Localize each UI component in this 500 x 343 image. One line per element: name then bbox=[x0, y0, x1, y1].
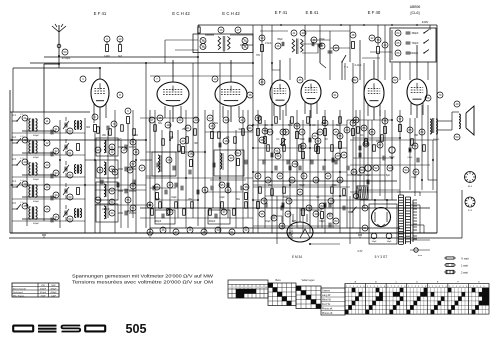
oscillator coil box row 2 bbox=[96, 138, 118, 156]
capacitor C71 bbox=[280, 206, 282, 211]
capacitor C58 bbox=[358, 153, 360, 158]
IF transformer T2 coils bbox=[292, 39, 295, 52]
node 54 bbox=[255, 115, 261, 121]
node 42 top bbox=[369, 35, 375, 41]
node 27 at (258,176) bbox=[255, 173, 261, 179]
resistor R16 bbox=[245, 193, 248, 200]
svg-text:Phono aK: Phono aK bbox=[322, 307, 333, 310]
resistor R66 bbox=[315, 145, 318, 152]
svg-text:3: 3 bbox=[456, 286, 457, 288]
resistor R71 bbox=[271, 189, 274, 196]
svg-text:460pF: 460pF bbox=[33, 179, 40, 181]
IF T1 trimmer right bbox=[242, 38, 248, 44]
node 30 bbox=[147, 202, 153, 208]
junction at (85,185) bbox=[84, 184, 86, 186]
resistor R74 bbox=[343, 189, 346, 196]
node 12 at (112,152) bbox=[109, 149, 115, 155]
trimmer capacitor row 2 bbox=[64, 145, 66, 150]
node 4 below V1 bbox=[92, 114, 98, 120]
svg-text:05μF: 05μF bbox=[277, 38, 283, 41]
resistor R51 bbox=[121, 125, 124, 132]
coil L16 bbox=[220, 153, 222, 169]
resistor R78 bbox=[175, 202, 178, 209]
padder capacitor row 3 bbox=[124, 167, 126, 172]
node label row 5 b bbox=[44, 206, 50, 212]
resistor R83 bbox=[233, 209, 236, 216]
wire bus y152 bbox=[146, 151, 205, 153]
node 86 at (372,132) bbox=[369, 129, 375, 135]
junction at (95,160) bbox=[94, 159, 96, 161]
node 29 at (280,176) bbox=[277, 173, 283, 179]
svg-text:2: 2 bbox=[370, 286, 371, 288]
junction at (310,148) bbox=[309, 147, 311, 149]
wire osc row 4 bbox=[118, 190, 123, 192]
mixer grid components bbox=[211, 132, 214, 139]
resistor R29 bbox=[302, 209, 305, 216]
capacitor C78 bbox=[210, 186, 212, 191]
legend 2 watt resistor bbox=[446, 270, 454, 273]
wire antenna to band switch bbox=[44, 63, 59, 65]
svg-text:2: 2 bbox=[350, 286, 351, 288]
resistor R54 bbox=[365, 139, 368, 146]
node 28 at (268,180) bbox=[265, 177, 271, 183]
svg-text:4: 4 bbox=[418, 286, 419, 288]
IF T2 top nodes bbox=[291, 30, 297, 36]
wire v x372 bbox=[371, 120, 373, 200]
resistor R32 bbox=[399, 125, 402, 132]
svg-text:6: 6 bbox=[425, 286, 426, 288]
ground det bbox=[286, 232, 294, 234]
node 52 bbox=[352, 77, 358, 83]
wire osc row 2 bbox=[118, 146, 123, 148]
pilot lamp P1 bbox=[353, 193, 358, 198]
node 15 at (100,170) bbox=[97, 167, 103, 173]
wire mixer links bbox=[204, 150, 206, 176]
tube V1 EF41 bbox=[91, 79, 109, 107]
node 87 at (380,145) bbox=[377, 142, 383, 148]
resistor R57 bbox=[411, 139, 414, 146]
node 42 at (242,120) bbox=[239, 117, 245, 123]
svg-text:E F 40: E F 40 bbox=[368, 10, 381, 15]
resistor R44 bbox=[186, 137, 189, 144]
resistor R48 bbox=[242, 129, 245, 136]
node 26 bbox=[166, 157, 172, 163]
junction at (422,180) bbox=[421, 179, 423, 181]
coil L6 bbox=[75, 165, 77, 174]
junction at (12,140) bbox=[11, 139, 13, 141]
svg-text:Vellen legen: Vellen legen bbox=[301, 279, 315, 282]
wire antenna feed bus bbox=[13, 67, 59, 69]
node 32 at (226,120) bbox=[223, 117, 229, 123]
svg-text:240V: 240V bbox=[422, 20, 429, 24]
node 26 at (344,155) bbox=[341, 152, 347, 158]
node 93 at (390,168) bbox=[387, 165, 393, 171]
capacitor C35 bbox=[323, 203, 325, 208]
svg-text:Gramm.: Gramm. bbox=[322, 289, 331, 292]
svg-text:1MΛ: 1MΛ bbox=[292, 221, 297, 223]
wire row 4 links bbox=[22, 196, 56, 198]
capacitor C32 bbox=[308, 138, 310, 143]
node 22 at (196,120) bbox=[193, 117, 199, 123]
junction at (59,64) bbox=[58, 63, 60, 65]
antenna coupling capacitor C1 4700pF bbox=[57, 44, 61, 48]
oscillator coil L11 bbox=[104, 184, 106, 197]
mixer box bbox=[214, 150, 244, 176]
svg-text:3: 3 bbox=[374, 286, 375, 288]
node 97 at (270,132) bbox=[267, 129, 273, 135]
junction at (340,196) bbox=[339, 195, 341, 197]
resistor R73 bbox=[331, 187, 334, 194]
node 44 top bbox=[382, 42, 388, 48]
resistor R59 bbox=[259, 117, 262, 124]
capacitor C18 bbox=[174, 183, 176, 188]
wire v x262 top bbox=[261, 25, 263, 85]
padder capacitor row 2 bbox=[124, 145, 126, 150]
junction at (360,190) bbox=[359, 189, 361, 191]
svg-text:Drehkond.: Drehkond. bbox=[13, 291, 23, 294]
resistor R60 bbox=[267, 145, 270, 152]
junction at (387,200) bbox=[386, 199, 388, 201]
resistor R63 bbox=[291, 117, 294, 124]
band switch contact A5 bbox=[17, 204, 21, 209]
svg-text:G: G bbox=[478, 282, 480, 284]
junction at (136,160) bbox=[135, 159, 137, 161]
svg-text:2: 2 bbox=[473, 286, 474, 288]
trimmer capacitor row 1 bbox=[64, 123, 66, 128]
electrolytic capacitor C38 bbox=[389, 147, 395, 153]
wire bus y192 bbox=[350, 191, 437, 193]
legend 1 watt resistor bbox=[446, 264, 454, 267]
svg-text:4700pF: 4700pF bbox=[102, 209, 110, 211]
node 32 at (316,180) bbox=[313, 177, 319, 183]
node 49 speaker bbox=[454, 101, 460, 107]
capacitor C60 bbox=[382, 156, 384, 161]
svg-text:4: 4 bbox=[377, 286, 378, 288]
junction at (325,160) bbox=[324, 159, 326, 161]
resistor R75 bbox=[151, 209, 154, 216]
svg-text:1kΛ: 1kΛ bbox=[118, 55, 123, 58]
svg-text:1: 1 bbox=[408, 286, 409, 288]
wire v x236 bbox=[235, 130, 237, 228]
svg-text:4: 4 bbox=[459, 286, 460, 288]
svg-text:6: 6 bbox=[404, 286, 405, 288]
svg-text:6: 6 bbox=[363, 286, 364, 288]
resistor R39 top bbox=[352, 42, 355, 49]
wire long mid horiz 1 bbox=[10, 139, 146, 141]
tube V2 ECH42 bbox=[157, 82, 189, 106]
wire v x385 top bbox=[384, 25, 386, 80]
svg-text:6.3V: 6.3V bbox=[358, 250, 363, 253]
junction at (272,125) bbox=[271, 124, 273, 126]
junction at (392,120) bbox=[391, 119, 393, 121]
svg-text:6.4mA: 6.4mA bbox=[355, 64, 362, 67]
wire top jogs bbox=[272, 63, 280, 70]
node 52 at (246,230) bbox=[243, 227, 249, 233]
node 47 at (142,168) bbox=[139, 165, 145, 171]
osc node row 4 bbox=[109, 188, 115, 194]
svg-text:2: 2 bbox=[432, 286, 433, 288]
svg-text:5: 5 bbox=[422, 286, 423, 288]
junction at (353,120) bbox=[352, 119, 354, 121]
wire v x248 bbox=[247, 110, 249, 218]
resistor R55 bbox=[373, 145, 376, 152]
node 40 at (330,216) bbox=[327, 213, 333, 219]
resistor R81 bbox=[209, 209, 212, 216]
smoothing capacitor C43 bbox=[371, 233, 377, 239]
wire AVC bus bbox=[30, 62, 253, 64]
node 23 at (210,118) bbox=[207, 115, 213, 121]
node 41 at (205,190) bbox=[202, 187, 208, 193]
wire left bank verticals bbox=[11, 112, 13, 233]
wire v x228 bbox=[227, 110, 229, 218]
svg-text:430pF: 430pF bbox=[155, 221, 162, 223]
resistor R49 bbox=[97, 127, 100, 134]
wire osc row 3 bbox=[118, 168, 123, 170]
wire v x415 bbox=[414, 118, 416, 196]
node 21 at (302,132) bbox=[299, 129, 305, 135]
tube socket pinout S1 bbox=[465, 172, 476, 183]
resistor R22 volume bbox=[282, 139, 285, 146]
svg-text:3: 3 bbox=[435, 286, 436, 288]
svg-text:5: 5 bbox=[483, 286, 484, 288]
oscillator coil box row 5 bbox=[96, 204, 118, 222]
junction at (253,63) bbox=[252, 62, 254, 64]
svg-text:2000pF: 2000pF bbox=[410, 52, 419, 55]
junction at (220,178) bbox=[219, 177, 221, 179]
wire v x410 top bbox=[409, 62, 411, 80]
coil L2 bbox=[75, 121, 77, 130]
svg-text:390pF: 390pF bbox=[411, 32, 419, 35]
osc node row 3 bbox=[109, 166, 115, 172]
resistor R67 bbox=[323, 117, 326, 124]
svg-text:2M: 2M bbox=[264, 125, 267, 127]
resistor R53 bbox=[357, 127, 360, 134]
junction at (150,205) bbox=[149, 204, 151, 206]
capacitor C42 2000pF bbox=[395, 50, 401, 56]
tube V6 EF40 bbox=[364, 79, 384, 107]
padder capacitor C23 bbox=[214, 214, 216, 219]
node 3 bbox=[80, 76, 86, 82]
antenna coil L5 bbox=[29, 163, 31, 176]
wire v x178 bbox=[177, 130, 179, 218]
band switch contact A3 bbox=[17, 160, 21, 165]
wire v x290 top bbox=[289, 58, 291, 80]
svg-text:460pF: 460pF bbox=[33, 135, 40, 137]
capacitor C73 bbox=[342, 206, 344, 211]
node 40 bbox=[259, 79, 265, 85]
resistor R37 top right bbox=[377, 47, 380, 54]
node 51 at (232,232) bbox=[229, 229, 235, 235]
wire v x193 bbox=[192, 63, 194, 218]
switch table label column bbox=[321, 288, 345, 315]
svg-text:Y 1: Y 1 bbox=[344, 65, 349, 69]
junction at (272,172) bbox=[271, 171, 273, 173]
capacitor C67 bbox=[322, 166, 324, 171]
resistor R64 bbox=[299, 145, 302, 152]
junction at (146,140) bbox=[145, 139, 147, 141]
wire det horizontals bbox=[253, 124, 347, 126]
wire v x133 bbox=[132, 110, 134, 218]
svg-text:5: 5 bbox=[463, 286, 464, 288]
padder capacitor row 4 bbox=[124, 189, 126, 194]
node 20 at (180,120) bbox=[177, 117, 183, 123]
svg-text:½ watt: ½ watt bbox=[461, 257, 469, 261]
resistor R1 cathode V1 bbox=[94, 125, 97, 132]
wire long mid horiz 2 bbox=[10, 184, 146, 186]
node 51 bbox=[332, 92, 338, 98]
svg-text:3: 3 bbox=[394, 286, 395, 288]
node 81 bbox=[362, 225, 368, 231]
resistor R30 grid leak bbox=[352, 129, 355, 136]
node 46 at (163,230) bbox=[160, 227, 166, 233]
resistor R25 bbox=[317, 147, 320, 154]
node 8 bbox=[117, 92, 123, 98]
oscillator coil L9 bbox=[104, 140, 106, 153]
junction at (253,125) bbox=[252, 124, 254, 126]
wire v x364 bbox=[363, 63, 365, 208]
node label row 5 a bbox=[22, 203, 28, 209]
capacitor C40 390pF bbox=[395, 30, 401, 36]
wire NFB bbox=[428, 179, 437, 181]
resistor R79 bbox=[183, 209, 186, 216]
resistor R13 bbox=[156, 193, 159, 200]
node 11 at (98,150) bbox=[95, 147, 101, 153]
svg-text:1: 1 bbox=[367, 286, 368, 288]
junction at (60,160) bbox=[59, 159, 61, 161]
node 39 at (316,214) bbox=[313, 211, 319, 217]
wire row y160 bbox=[85, 159, 95, 161]
wire chassis bus mid bbox=[140, 207, 430, 209]
junction at (272,63) bbox=[271, 62, 273, 64]
resistor R45 bbox=[194, 129, 197, 136]
wire V4 anode bbox=[279, 60, 281, 80]
svg-text:01μF: 01μF bbox=[219, 197, 225, 199]
node 35 at (262,214) bbox=[259, 211, 265, 217]
wire HT supply top bus bbox=[198, 24, 437, 26]
resistor R40 bbox=[154, 125, 157, 132]
electrolytic capacitor C37 50uF bbox=[365, 165, 371, 171]
svg-text:4: 4 bbox=[480, 286, 481, 288]
svg-text:E C H 42: E C H 42 bbox=[222, 11, 240, 16]
capacitor C63 bbox=[274, 166, 276, 171]
resistor R31 cathode CL6 bbox=[384, 127, 387, 134]
junction at (433,160) bbox=[432, 159, 434, 161]
svg-text:3: 3 bbox=[353, 286, 354, 288]
resistor R61 bbox=[275, 117, 278, 124]
resistor R84 bbox=[245, 202, 248, 209]
antenna coil L3 bbox=[29, 141, 31, 154]
capacitor C72 bbox=[328, 203, 330, 208]
node 17 at (152,120) bbox=[149, 117, 155, 123]
svg-text:16μF: 16μF bbox=[386, 241, 392, 243]
ground mid bbox=[146, 232, 154, 234]
capacitor C53 bbox=[212, 163, 214, 168]
oscillator coil L15 bbox=[158, 155, 160, 172]
junction at (375,200) bbox=[374, 199, 376, 201]
svg-text:1: 1 bbox=[387, 286, 388, 288]
node 31 at (304,176) bbox=[301, 173, 307, 179]
svg-text:01μF: 01μF bbox=[411, 177, 417, 179]
IF T1 trimmer left bbox=[200, 38, 206, 44]
junction at (253,148) bbox=[252, 147, 254, 149]
resistor R72 bbox=[283, 187, 286, 194]
oscillator section box bbox=[152, 152, 176, 176]
svg-text:460pF: 460pF bbox=[33, 201, 40, 203]
junction at (410,150) bbox=[409, 149, 411, 151]
svg-text:14pF: 14pF bbox=[51, 295, 57, 297]
wire v x400 top bbox=[399, 62, 401, 80]
capacitor C75 bbox=[164, 190, 166, 195]
wire v x108 bbox=[107, 140, 109, 218]
junction at (100,68) bbox=[99, 67, 101, 69]
svg-text:E B 41: E B 41 bbox=[306, 10, 320, 15]
tone capacitor C39 bbox=[408, 148, 410, 153]
wire EM34 links bbox=[272, 216, 282, 222]
trimmer capacitor row 4 bbox=[64, 189, 66, 194]
svg-text:E F 41: E F 41 bbox=[275, 10, 288, 15]
screen resistor R2 bbox=[127, 117, 130, 124]
wire v x380 bbox=[379, 110, 381, 196]
svg-text:500k: 500k bbox=[300, 139, 306, 141]
svg-text:2 watt: 2 watt bbox=[461, 271, 468, 275]
wire v x155 bbox=[154, 110, 156, 218]
wire v x422 bbox=[421, 105, 423, 190]
junction at (198,200) bbox=[197, 199, 199, 201]
node 98 at (278,156) bbox=[275, 153, 281, 159]
wire right border bbox=[436, 25, 438, 233]
wire bus y68 bbox=[59, 67, 100, 69]
svg-text:37pF: 37pF bbox=[41, 295, 47, 297]
oscillator coil L10 bbox=[104, 162, 106, 175]
svg-text:01μF: 01μF bbox=[171, 197, 177, 199]
node 85 at (364,128) bbox=[361, 125, 367, 131]
wire V2 anode bbox=[172, 60, 174, 82]
svg-text:3: 3 bbox=[476, 286, 477, 288]
wire v x162 bbox=[161, 130, 163, 208]
resistor R11 bbox=[182, 147, 185, 154]
tone cap bank box bbox=[390, 28, 436, 62]
node 38 bbox=[247, 92, 253, 98]
svg-text:Bera: Bera bbox=[275, 279, 281, 282]
resistor R15 bbox=[237, 159, 240, 166]
capacitor C55 bbox=[100, 180, 102, 185]
DESO logo bbox=[13, 326, 33, 332]
junction at (198,57) bbox=[197, 56, 199, 58]
node 21 at (188,128) bbox=[185, 125, 191, 131]
svg-text:4: 4 bbox=[439, 286, 440, 288]
capacitor C34 bbox=[281, 203, 283, 208]
node 49 at (204,232) bbox=[201, 229, 207, 235]
resistor R77 bbox=[167, 209, 170, 216]
band switch contact A2 bbox=[17, 138, 21, 143]
svg-text:Phono oK: Phono oK bbox=[322, 312, 333, 315]
svg-text:50μF: 50μF bbox=[357, 175, 363, 177]
svg-text:1: 1 bbox=[449, 286, 450, 288]
wire row 3 links bbox=[22, 174, 56, 176]
svg-text:70V: 70V bbox=[256, 55, 261, 57]
wire osc column verticals bbox=[94, 140, 96, 233]
node 46 at (130,170) bbox=[127, 167, 133, 173]
svg-text:1M: 1M bbox=[324, 139, 327, 141]
junction at (400,138) bbox=[399, 137, 401, 139]
node 92 at (376,168) bbox=[373, 165, 379, 171]
svg-text:[CL6]: [CL6] bbox=[410, 11, 419, 15]
wire v x320 top bbox=[319, 25, 321, 63]
power transformer T2 primary comb bbox=[399, 194, 404, 196]
wire bottom ground bus bbox=[10, 232, 437, 234]
junction at (27,205) bbox=[26, 204, 28, 206]
wire bus y165 bbox=[350, 164, 430, 166]
